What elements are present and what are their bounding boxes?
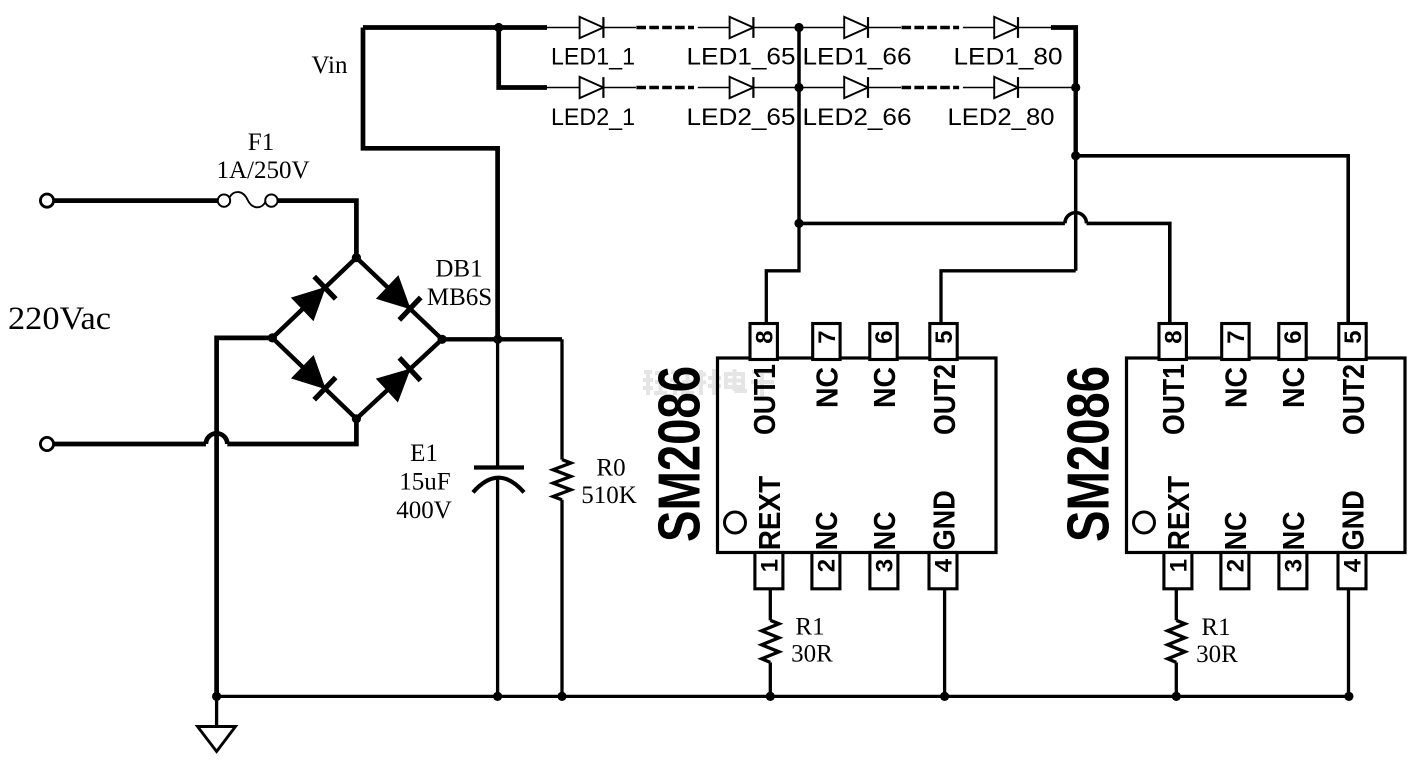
- wire LED2 row segment b: [603, 87, 636, 89]
- wire U1 pin4 to ground rail: [943, 589, 946, 697]
- svg-text:NC: NC: [1218, 511, 1253, 550]
- svg-text:6: 6: [1280, 330, 1307, 343]
- node bridge bottom: [352, 414, 361, 423]
- wire LED1 row segment f: [963, 27, 994, 29]
- wire LED2 row segment a: [547, 87, 580, 89]
- fuse F1: [218, 194, 230, 206]
- wire bridge right node rail: [442, 337, 562, 341]
- svg-text:NC: NC: [1276, 367, 1311, 408]
- U2 pin 8 box: [1159, 324, 1186, 360]
- wire OUT1 bus to right IC pin8: [1087, 223, 1170, 323]
- wire left IC pin5 connection: [941, 271, 1076, 324]
- svg-text:GND: GND: [1335, 490, 1370, 550]
- diode DB1 upper-left: [292, 288, 325, 321]
- svg-text:15uF: 15uF: [399, 469, 450, 496]
- U2 pin 7 box: [1222, 324, 1249, 360]
- U1 pin 8 box: [750, 324, 777, 360]
- node ground rail U1 GND: [940, 692, 949, 701]
- node ground rail R0: [557, 692, 566, 701]
- wire hop over ground branch: [206, 433, 227, 444]
- wire LED2 feed elbow: [499, 28, 547, 88]
- wire right column upper: [1073, 88, 1077, 156]
- svg-text:LED1_1: LED1_1: [551, 44, 635, 71]
- node right column junction: [1071, 151, 1080, 160]
- wire junction to E1 plate: [496, 339, 499, 467]
- wire OUT2 bus to right IC pin5: [1076, 156, 1349, 324]
- watermark: [643, 369, 774, 396]
- diode LED1_65: [730, 17, 754, 38]
- svg-text:R1: R1: [1201, 614, 1230, 641]
- svg-text:NC: NC: [1219, 367, 1254, 408]
- svg-text:LED1_65: LED1_65: [687, 44, 796, 71]
- resistor R1 left: [762, 620, 779, 662]
- diode DB1 lower-right: [377, 369, 410, 401]
- wire LED1 end elbow: [1051, 28, 1076, 88]
- svg-text:OUT2: OUT2: [1336, 364, 1371, 435]
- wire neutral terminal to hop: [54, 442, 206, 447]
- svg-text:1: 1: [1166, 559, 1193, 572]
- wire LED1 feed: [363, 25, 547, 30]
- svg-text:OUT2: OUT2: [927, 364, 962, 435]
- node mid column OUT1 junction: [794, 219, 803, 228]
- wire LED1 row segment c: [698, 27, 730, 29]
- svg-text:5: 5: [931, 330, 958, 343]
- ground: [215, 696, 218, 726]
- bridge DB1 edge bottom-right: [356, 339, 442, 419]
- svg-text:R1: R1: [795, 614, 824, 641]
- node ground rail left: [212, 692, 221, 701]
- svg-text:2: 2: [1223, 559, 1250, 572]
- svg-text:NC: NC: [867, 367, 902, 408]
- diode DB1 upper-right: [377, 276, 410, 309]
- wire R0 to ground rail: [560, 500, 563, 697]
- svg-text:LED2_1: LED2_1: [551, 104, 635, 131]
- node Vin column junction: [493, 335, 502, 344]
- diode DB1 lower-left: [292, 356, 325, 389]
- svg-text:MB6S: MB6S: [427, 284, 492, 311]
- wire Vin riser: [363, 28, 498, 340]
- svg-text:F1: F1: [248, 129, 274, 156]
- U2 pin 4 box: [1338, 553, 1366, 589]
- node bridge left: [268, 333, 277, 342]
- svg-text:SM2086: SM2086: [1056, 366, 1122, 542]
- svg-text:SM2086: SM2086: [647, 366, 713, 542]
- diode LED1_1: [580, 17, 604, 38]
- svg-text:OUT1: OUT1: [747, 364, 782, 435]
- diode LED1_66: [844, 17, 868, 38]
- wire LED1 row segment a: [547, 27, 580, 29]
- wire E1 to ground rail: [496, 479, 499, 697]
- U2 pin 5 box: [1339, 324, 1366, 360]
- svg-text:LED2_80: LED2_80: [948, 104, 1055, 131]
- svg-text:5: 5: [1340, 330, 1367, 343]
- svg-text:4: 4: [1340, 558, 1367, 572]
- wire LED1 row segment d: [753, 27, 844, 29]
- resistor R1 right: [1168, 620, 1185, 662]
- wire LED1 row segment e: [868, 27, 901, 29]
- U1 pin 3 box: [870, 553, 898, 589]
- wire LED2 row segment c: [698, 87, 730, 89]
- svg-text:DB1: DB1: [435, 256, 482, 283]
- svg-text:510K: 510K: [581, 482, 637, 509]
- bridge DB1 edge left-top: [272, 258, 356, 338]
- svg-text:GND: GND: [926, 490, 961, 550]
- terminal AC neutral: [40, 437, 53, 450]
- U1 pin 1 indicator circle: [725, 512, 746, 533]
- svg-text:R0: R0: [596, 455, 625, 482]
- bridge DB1 edge top-right: [356, 258, 442, 340]
- svg-text:7: 7: [814, 330, 841, 343]
- wire OUT1 bus: [799, 222, 1065, 226]
- wire ground rail: [217, 695, 1349, 698]
- U1 pin 5 box: [930, 324, 957, 360]
- svg-text:NC: NC: [1276, 511, 1311, 550]
- U2 pin 2 box: [1221, 553, 1249, 589]
- node LED2 mid junction: [794, 83, 803, 92]
- U1 pin 6 box: [870, 324, 897, 360]
- node ground rail R1 left: [766, 692, 775, 701]
- svg-text:2: 2: [814, 559, 841, 572]
- bridge DB1 edge left-bottom: [272, 338, 356, 419]
- svg-text:7: 7: [1223, 330, 1250, 343]
- wire U2 pin1 to R1: [1175, 589, 1178, 621]
- diode LED2_65: [730, 77, 754, 98]
- wire LED1 row dashes a: [636, 26, 694, 29]
- svg-text:Vin: Vin: [312, 52, 348, 79]
- svg-text:LED1_80: LED1_80: [954, 44, 1063, 71]
- wire LED1 row segment g: [1018, 27, 1052, 29]
- svg-text:NC: NC: [810, 367, 845, 408]
- svg-text:4: 4: [931, 558, 958, 572]
- U2 pin 1 box: [1164, 553, 1192, 589]
- resistor R0: [553, 460, 571, 500]
- svg-text:NC: NC: [809, 511, 844, 550]
- wire rail corner to R0: [560, 339, 563, 459]
- svg-text:NC: NC: [867, 511, 902, 550]
- node ground rail U2 GND: [1344, 692, 1353, 701]
- U2 pin 6 box: [1279, 324, 1306, 360]
- node bridge right: [438, 335, 447, 344]
- wire hop to bridge bottom: [227, 419, 356, 444]
- wire U2 pin4 to ground rail: [1347, 589, 1350, 697]
- wire LED2 row segment g: [1018, 87, 1076, 89]
- wire live terminal to fuse: [54, 198, 218, 203]
- terminal AC live: [40, 194, 53, 207]
- svg-text:OUT1: OUT1: [1156, 364, 1191, 435]
- wire LED2 row dashes b: [902, 86, 960, 89]
- wire LED1 row dashes b: [902, 26, 960, 29]
- node Vin LED junction: [494, 23, 503, 32]
- node bridge top: [352, 253, 361, 262]
- wire left IC pin8 connection: [766, 223, 799, 323]
- wire LED2 row segment e: [868, 87, 901, 89]
- svg-text:220Vac: 220Vac: [8, 301, 111, 337]
- node ground rail R1 right: [1172, 692, 1181, 701]
- svg-text:8: 8: [1160, 330, 1187, 343]
- node LED1 mid junction: [794, 23, 803, 32]
- wire R1 left to ground rail: [769, 662, 772, 696]
- svg-text:REXT: REXT: [1161, 476, 1196, 551]
- svg-text:8: 8: [751, 330, 778, 343]
- wire LED1 row segment b: [603, 27, 636, 29]
- U1 pin 1 box: [755, 553, 783, 589]
- svg-text:30R: 30R: [791, 641, 833, 668]
- svg-text:400V: 400V: [396, 497, 452, 524]
- U1 pin 4 box: [929, 553, 957, 589]
- wire right column mid: [1074, 156, 1078, 271]
- U1 pin 2 box: [812, 553, 840, 589]
- svg-text:6: 6: [871, 330, 898, 343]
- op-amp U1 SM2086 body: [718, 358, 997, 553]
- wire bridge left to ground rail: [217, 338, 273, 697]
- svg-text:30R: 30R: [1196, 641, 1238, 668]
- svg-text:3: 3: [872, 559, 899, 572]
- U2 pin 1 indicator circle: [1134, 512, 1155, 533]
- wire mid column: [797, 28, 801, 224]
- wire LED2 row segment d: [753, 87, 844, 89]
- svg-text:1A/250V: 1A/250V: [216, 157, 309, 184]
- capacitor E1: [474, 465, 524, 469]
- wire R1 right to ground rail: [1175, 662, 1178, 696]
- wire LED2 row segment f: [963, 87, 994, 89]
- node ground rail E1: [493, 692, 502, 701]
- wire fuse to bridge top: [278, 201, 357, 258]
- svg-text:LED1_66: LED1_66: [803, 44, 912, 71]
- U1 pin 7 box: [813, 324, 840, 360]
- diode LED1_80: [994, 17, 1018, 38]
- wire LED2 row dashes a: [636, 86, 694, 89]
- diode LED2_1: [580, 77, 604, 98]
- svg-text:3: 3: [1281, 559, 1308, 572]
- U2 pin 3 box: [1279, 553, 1307, 589]
- node LED2 end junction: [1071, 83, 1080, 92]
- diode LED2_66: [844, 77, 868, 98]
- op-amp U2 SM2086 body: [1127, 358, 1406, 553]
- svg-text:LED2_66: LED2_66: [803, 104, 912, 131]
- svg-text:1: 1: [757, 559, 784, 572]
- svg-text:E1: E1: [410, 440, 438, 467]
- diode LED2_80: [994, 77, 1018, 98]
- wire U1 pin1 to R1: [769, 589, 772, 621]
- svg-text:REXT: REXT: [752, 476, 787, 551]
- wire OUT1 bus hop: [1065, 213, 1087, 224]
- svg-text:LED2_65: LED2_65: [687, 104, 796, 131]
